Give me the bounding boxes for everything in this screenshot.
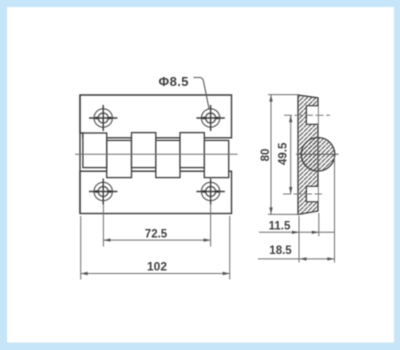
knuckle K2 (lower) [107, 140, 132, 177]
svg-text:18.5: 18.5 [269, 245, 292, 257]
hole centerline top [284, 114, 330, 116]
top leaf plate [80, 95, 232, 138]
hole H1 top-left [89, 105, 117, 131]
dimension 49.5 [290, 115, 292, 194]
dimension 11.5 [259, 231, 335, 233]
left edge of leaves [79, 95, 81, 214]
dimension 102 [81, 216, 230, 280]
knuckle K3 (upper) [132, 133, 156, 168]
barrel circle section [301, 138, 335, 172]
pin centerline [75, 153, 238, 155]
knuckle K4 (lower) [156, 140, 180, 177]
extension line right face [318, 213, 320, 236]
svg-text:72.5: 72.5 [145, 229, 168, 241]
leader line to hole H2 [194, 78, 210, 109]
dimension 72.5 [103, 204, 210, 247]
dimension 18.5 [258, 258, 335, 260]
hole H3 bottom-left [89, 179, 117, 205]
hole H4 bottom-right [196, 179, 224, 205]
knuckle K5 (upper) [180, 133, 204, 168]
countersunk hole notch bottom [306, 186, 318, 202]
dimension 80 [268, 95, 299, 215]
svg-text:80: 80 [260, 149, 272, 162]
knuckle K1 (upper) [83, 133, 107, 168]
barrel crosshair [296, 153, 339, 155]
extension line left face [298, 216, 300, 263]
knuckle K6 (lower) [204, 140, 228, 177]
bottom leaf plate [80, 171, 232, 213]
svg-text:Φ8.5: Φ8.5 [159, 74, 189, 89]
svg-text:102: 102 [147, 260, 167, 274]
extension line barrel right [334, 157, 336, 263]
svg-text:49.5: 49.5 [277, 142, 289, 165]
hole H2 top-right [196, 105, 224, 131]
countersunk hole notch top [306, 106, 318, 125]
hole centerline bottom [283, 193, 322, 195]
svg-text:11.5: 11.5 [269, 220, 291, 232]
leaf section strip [298, 95, 318, 215]
